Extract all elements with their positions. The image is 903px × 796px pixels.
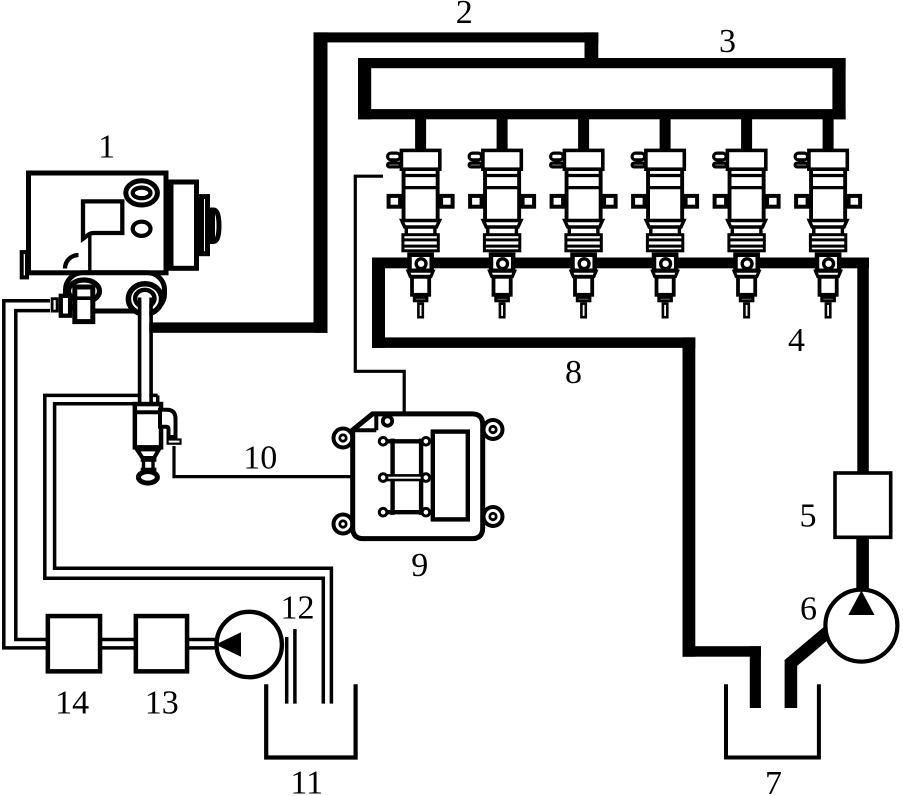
pump 6: fuel transfer pump circle <box>825 590 897 662</box>
top oil port inner ellipse <box>133 188 151 199</box>
valve cap line <box>133 410 163 414</box>
ECU mounting ear bottom-right <box>484 507 503 526</box>
bottom outlet port outer ellipse <box>128 284 161 314</box>
ECU U9: outer case with chamfered corner <box>353 414 483 539</box>
injector 4 <box>632 150 697 317</box>
wire: pipe filter 14 to filter 13 <box>100 640 136 648</box>
tank 11: oil tank <box>266 684 355 757</box>
tank 7: fuel tank <box>726 684 819 757</box>
manifold 3: fuel supply manifold <box>358 58 846 119</box>
fitting nut large <box>61 296 70 316</box>
wire: thick supply line 2 from pump 1 to manifold <box>149 32 599 332</box>
svg-text:10: 10 <box>243 439 277 476</box>
injector 3 <box>551 150 616 317</box>
injector 6 <box>795 150 860 317</box>
injector 1 <box>388 150 453 317</box>
svg-text:12: 12 <box>281 590 315 627</box>
svg-text:9: 9 <box>411 547 428 584</box>
wire: return pipe from pump 1 fitting down to filter 14 (inner wall) <box>16 311 50 640</box>
wire: 6 supply stubs from manifold to injectors <box>415 115 833 152</box>
pump 6 triangle <box>848 591 874 616</box>
wire: fuel rail 4 horizontal run <box>372 258 869 269</box>
ECU mounting ear bottom-left <box>334 515 353 534</box>
wire: thick drain line from pump 6 to tank 7 <box>791 628 833 709</box>
ECU U9: mounting ear top-left <box>334 420 503 534</box>
ECU ladder top rung <box>386 439 428 443</box>
ECU corner screw circle <box>383 416 392 425</box>
ECU ladder rails <box>393 439 422 515</box>
drum attachment right <box>171 182 197 268</box>
node: placeholder groups <box>4 301 332 704</box>
top oil port outer ellipse <box>126 181 158 205</box>
wire: drain pipe from valve tee down and into tank 11 (wall B) <box>55 404 332 704</box>
internal vertical line below plate <box>88 235 91 271</box>
valve taper <box>137 449 159 458</box>
bottom outlet port inner ellipse <box>135 290 154 307</box>
svg-text:7: 7 <box>765 765 782 796</box>
injector 2 <box>469 150 534 317</box>
wire: pipe filter 13 to transfer pump 12 <box>188 640 218 648</box>
fitting block divider <box>72 296 95 300</box>
lower pill section of pump <box>66 273 165 311</box>
svg-text:2: 2 <box>456 0 473 31</box>
valve elbow outlet <box>160 410 176 437</box>
main housing rectangle <box>29 173 167 273</box>
flag shaped internal plate <box>83 201 122 238</box>
wire: suction pipe from tank 11 to pump 12 <box>287 629 295 704</box>
valve poppet ball <box>138 472 157 484</box>
drum step <box>202 197 208 254</box>
valve stem walls <box>144 459 154 470</box>
box 5: fuel filter <box>835 473 891 537</box>
svg-text:3: 3 <box>719 23 736 60</box>
svg-text:11: 11 <box>290 764 323 796</box>
wire: step at tee right end <box>156 395 160 403</box>
svg-text:6: 6 <box>800 590 817 627</box>
pump 12 triangle <box>216 632 242 656</box>
wire: drain pipe from valve tee down and into tank 11 (wall A) <box>45 395 324 703</box>
wire: return line 8 from rail down to tank 7 <box>372 258 761 709</box>
fitting block <box>75 287 93 322</box>
wire: return pipe from pump 1 fitting down to filter 14 (outer wall) <box>4 301 50 648</box>
svg-text:14: 14 <box>55 684 89 721</box>
pump 12: transfer pump circle <box>217 612 282 677</box>
ECU mounting ear top-right <box>484 420 503 439</box>
wire: signal line 10 from valve to ECU <box>174 446 352 477</box>
svg-text:8: 8 <box>565 354 582 391</box>
svg-text:5: 5 <box>800 497 817 534</box>
svg-text:1: 1 <box>98 128 115 165</box>
box 14: fuel filter <box>48 616 100 671</box>
left port ellipse behind fitting <box>69 280 100 302</box>
wire: thick line from box 5 to pump 6 <box>856 537 869 592</box>
ECU corner notch lines <box>353 414 377 430</box>
ECU window rectangle <box>433 432 468 520</box>
svg-text:4: 4 <box>788 322 805 359</box>
valve collar 2 <box>141 468 157 472</box>
svg-text:13: 13 <box>145 684 179 721</box>
curved pipe arc <box>65 255 79 269</box>
wire: rail 4 right drop to box 5 <box>857 258 869 475</box>
ECU rung end circles <box>379 438 429 517</box>
valve collar 1 <box>141 458 157 462</box>
injector 5 <box>714 150 779 317</box>
small port ellipse <box>133 222 151 236</box>
wire: thin harness from ECU to injector 1 <box>355 176 404 414</box>
ECU ladder middle rung (double) <box>386 475 428 480</box>
valve V1: pressure regulator body <box>135 404 161 447</box>
ECU ladder bottom rung <box>386 510 428 514</box>
wire: oil pipe from outlet port down to valve tee <box>141 297 149 403</box>
drum end cap <box>213 210 220 242</box>
mounting tab on left edge <box>22 252 27 277</box>
fitting nut small <box>52 299 57 311</box>
box 13: fuel filter <box>136 616 187 671</box>
valve elbow flange <box>168 440 181 444</box>
